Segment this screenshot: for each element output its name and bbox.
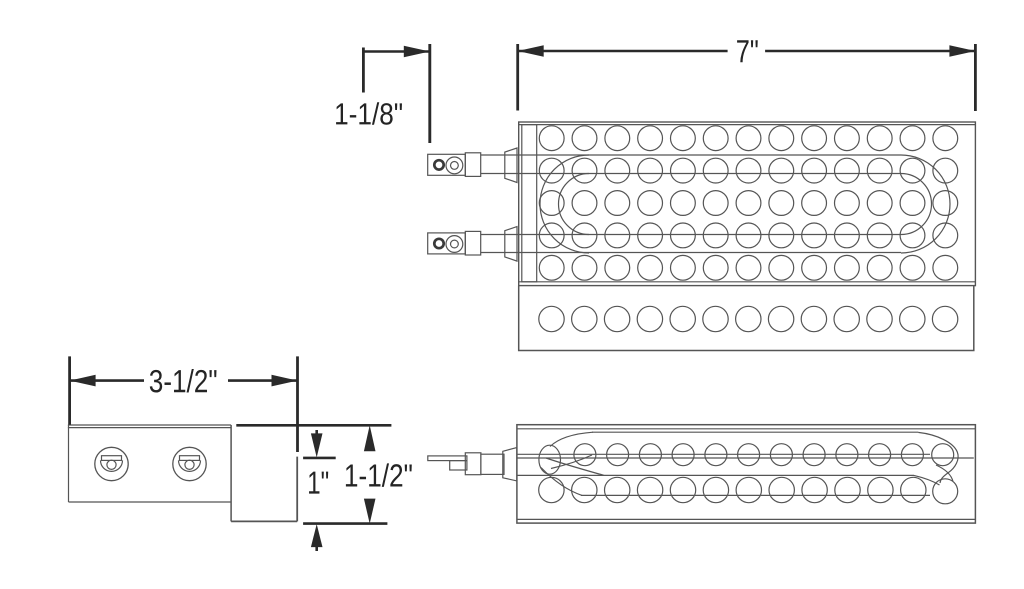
dimension 7": label text: [737, 40, 748, 62]
side view: right end upper bend loop: [932, 444, 954, 466]
end view: left screw terminal: [95, 447, 128, 480]
top view: inner top edge line: [519, 124, 976, 126]
side view: terminal bushing: [503, 448, 517, 481]
top view: lower tube run bottom edge: [481, 252, 901, 254]
dimension 1": top tick: [303, 457, 336, 460]
side view: left transition wire to top envelope: [550, 432, 593, 446]
top view: left mounting strip: [522, 125, 537, 282]
end view: step right edge: [296, 457, 298, 522]
dimension 1": up arrowhead below bottom line: [311, 524, 323, 547]
dimension 1-1/8": label text: [336, 103, 347, 124]
side view: terminal pin: [428, 456, 467, 461]
end view: bracket right vertical edge: [230, 425, 232, 521]
dimension 1-1/2": down arrowhead: [364, 499, 376, 524]
top view: upper terminal lug: [428, 154, 466, 175]
top view: heater plate outer body: [519, 122, 976, 286]
dimension 7": dimension line with text gap: [518, 50, 728, 53]
side view: right end lower bend loop: [933, 479, 958, 504]
side view: right end sweeping transition wire: [918, 432, 958, 483]
dimension 7": left arrowhead: [518, 45, 544, 57]
top view: upper tube run bottom edge: [481, 173, 901, 175]
dimension 3-1/2": extension line left: [68, 356, 71, 424]
end view: step bottom edge: [231, 520, 297, 522]
top view: right U-bend inner arc: [901, 174, 931, 235]
dimension 7": extension line left: [516, 44, 519, 111]
dimension 3-1/2": right arrowhead: [272, 375, 298, 387]
side view: terminal block: [465, 453, 481, 475]
top view: upper tube run top edge: [481, 154, 901, 156]
top view: lower fin section body: [519, 286, 974, 351]
side view: element centerline upper: [517, 453, 930, 455]
side view: left end bend loop: [539, 445, 561, 474]
side view: lower coil line: [581, 494, 930, 496]
dimension 1-1/2": top extension line: [236, 424, 391, 427]
dimension 1-1/2": up arrowhead: [364, 425, 376, 451]
side view: heater body outline: [517, 425, 976, 523]
dimension 1-1/8": dimension line: [363, 50, 429, 53]
side view: upper coil turns (11 circles): [574, 444, 924, 466]
top view: grid of element holes (5 rows x 13 cols): [539, 126, 957, 280]
side view: inner bottom edge line: [517, 518, 976, 520]
top view: lower terminal bushing: [505, 227, 517, 262]
side view: element centerline lower: [517, 457, 974, 459]
dimension 3-1/2": left arrowhead: [70, 375, 96, 387]
dimension 3-1/2": label text: [150, 370, 162, 393]
side view: inner top edge line: [517, 428, 976, 430]
dimension 1-1/2": label text: [346, 464, 357, 486]
side view: terminal collar: [481, 454, 504, 474]
dimension 1-1/8": arrowhead: [404, 46, 430, 58]
dimension 3-1/2": extension line right: [296, 356, 299, 452]
top view: left U-bend outer arc: [540, 155, 589, 253]
end view: bracket left edge: [68, 425, 70, 502]
end view: bracket bottom edge: [69, 501, 232, 503]
side view: terminal pin step: [450, 461, 467, 470]
top view: right U-bend outer arc: [901, 155, 950, 253]
dimension 7": right arrowhead: [949, 45, 975, 57]
dimension 3-1/2": dimension line with text gap: [70, 379, 144, 382]
top view: left U-bend inner arc: [558, 174, 589, 235]
side view: lower coil turns (13 circles): [539, 477, 926, 502]
top view: lower tube run top edge: [481, 234, 901, 236]
dimension 7": extension line right: [974, 44, 977, 111]
side view: coil envelope top line: [592, 431, 918, 433]
dimension 1": down arrowhead above tick: [311, 433, 323, 457]
dimension 1-1/2": bottom extension line: [303, 522, 387, 525]
end view: right screw terminal: [173, 447, 206, 480]
side view: right end inner transition wire: [936, 465, 953, 482]
end view: bracket top edge (double): [68, 424, 231, 426]
dimension 1": label text: [309, 472, 319, 494]
side view: right end middle envelope drop wire: [914, 475, 940, 485]
dimension 1-1/8": left tick: [362, 48, 365, 93]
top view: upper terminal bushing: [505, 148, 517, 183]
dimension 1-1/8": extension line right: [428, 44, 431, 143]
top view: lower fin section holes (1 row x 13): [539, 306, 958, 331]
top view: inner bottom edge line: [519, 281, 976, 283]
top view: lower terminal lug: [428, 233, 466, 254]
side view: left transition wire descending to middle envelope: [546, 458, 604, 475]
side view: left transition wire ascending to centerline: [551, 455, 592, 469]
side view: coil envelope middle line: [517, 474, 914, 476]
side view: left transition wire descending to lower coil line: [541, 468, 582, 496]
